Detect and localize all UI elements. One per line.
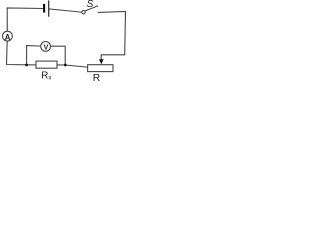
svg-text:A: A bbox=[5, 33, 11, 42]
rheostat R box bbox=[88, 65, 113, 72]
wire ammeter to bottom-left to Rx bbox=[7, 41, 37, 65]
wire node A up to voltmeter left bbox=[27, 46, 41, 65]
battery thick short bar (negative) bbox=[43, 4, 45, 13]
wire switch to top-right corner down to slider bbox=[98, 12, 125, 60]
wire node B to rheostat left terminal bbox=[65, 65, 88, 67]
ammeter A bbox=[3, 31, 13, 41]
node B junction dot bbox=[64, 64, 67, 67]
resistor Rx box bbox=[36, 61, 57, 68]
battery thin long line (positive) bbox=[48, 0, 49, 16]
rheostat slider arrow bbox=[99, 59, 104, 64]
switch S lever bbox=[85, 6, 98, 11]
svg-text:R: R bbox=[93, 73, 100, 82]
wire battery to switch bbox=[49, 9, 82, 12]
svg-text:S: S bbox=[87, 0, 94, 10]
wire top-left to ammeter bbox=[7, 8, 43, 31]
switch S circle contact bbox=[82, 11, 85, 14]
node A junction dot bbox=[25, 64, 28, 67]
svg-text:V: V bbox=[44, 42, 49, 51]
wire voltmeter right down to node B bbox=[50, 46, 65, 65]
wire Rx right to node B bbox=[57, 64, 66, 66]
voltmeter V bbox=[41, 42, 51, 52]
